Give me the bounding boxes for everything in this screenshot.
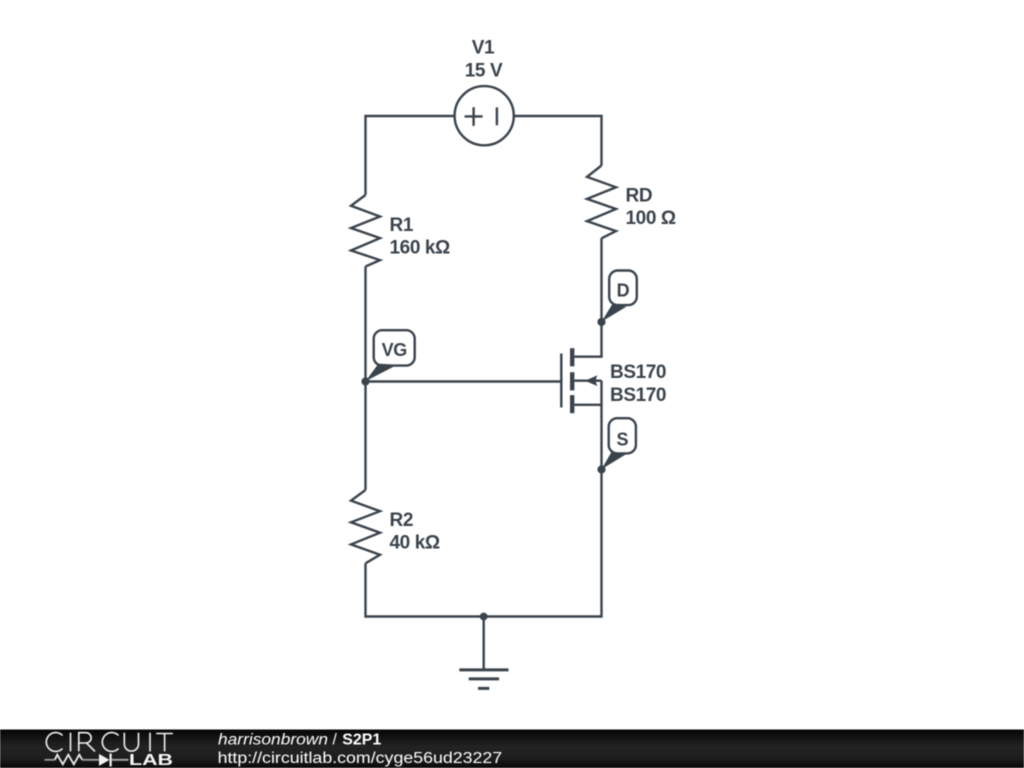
svg-text:BS170: BS170 — [610, 385, 666, 406]
channel dash drain — [570, 348, 574, 366]
svg-text:V1: V1 — [472, 37, 495, 58]
svg-text:D: D — [617, 281, 630, 301]
svg-text:S2P1: S2P1 — [342, 731, 381, 748]
wire R1 bottom to node VG — [364, 267, 366, 382]
svg-text:http://circuitlab.com/cyge56ud: http://circuitlab.com/cyge56ud23227 — [218, 750, 503, 767]
svg-text:S: S — [616, 430, 628, 450]
resistor RD — [587, 166, 616, 239]
svg-text:15 V: 15 V — [465, 61, 503, 82]
ground junction dot — [480, 613, 488, 621]
svg-text:LAB: LAB — [129, 752, 173, 768]
node S junction dot — [597, 465, 605, 473]
wire MOSFET source through node S to bottom-right corner to ground junction — [484, 405, 602, 617]
ground symbol — [459, 617, 508, 689]
footer bar — [0, 730, 1024, 768]
svg-text:VG: VG — [382, 340, 407, 360]
resistor R1 — [351, 195, 380, 267]
transistor M1 BS170 (NMOS) — [561, 348, 601, 413]
body lead with arrow — [574, 380, 601, 382]
svg-text:160 kΩ: 160 kΩ — [390, 238, 451, 259]
wire V1 right terminal to top-right corner down to RD — [514, 116, 602, 166]
voltage source V1 — [455, 86, 514, 145]
channel dash source — [570, 395, 574, 413]
svg-text:RD: RD — [626, 186, 653, 207]
wire V1 left terminal to top-left corner down to R1 — [366, 116, 456, 195]
gate bar — [560, 354, 562, 408]
svg-text:BS170: BS170 — [610, 362, 666, 383]
resistor R2 — [351, 490, 380, 563]
node D junction dot — [597, 318, 605, 326]
source lead — [574, 381, 601, 405]
wire R2 bottom to bottom-left corner to ground junction — [366, 563, 484, 616]
wire node VG down to R2 — [364, 382, 366, 491]
svg-text:40 kΩ: 40 kΩ — [390, 533, 440, 554]
svg-text:harrisonbrown: harrisonbrown — [218, 731, 328, 748]
node VG flag — [366, 330, 415, 381]
svg-text:R2: R2 — [390, 510, 414, 531]
svg-text:/: / — [333, 731, 338, 748]
node D flag — [602, 271, 637, 322]
svg-text:100 Ω: 100 Ω — [626, 208, 676, 229]
CircuitLab logo CIRCUIT wordmark — [46, 733, 173, 752]
node VG junction dot — [361, 377, 369, 385]
wire RD bottom through node D to MOSFET drain — [574, 238, 601, 356]
channel dash body — [570, 372, 574, 390]
svg-text:R1: R1 — [390, 215, 414, 236]
wire gate to node VG — [366, 380, 562, 382]
CircuitLab logo resistor-diode glyph — [45, 754, 129, 767]
node S flag — [602, 418, 636, 469]
